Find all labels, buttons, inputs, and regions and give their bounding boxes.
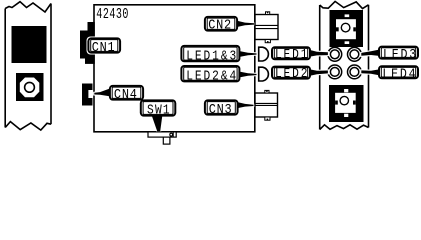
label CN3 [205,100,254,117]
left mounting bracket [5,2,51,130]
svg-text:LED4: LED4 [382,66,415,82]
label LED1 [272,47,328,62]
label LED1&3 [181,46,256,64]
switch SW1 (bottom edge of board) [148,132,176,144]
board outline 42430 [94,5,255,132]
right mounting bracket [320,1,369,129]
led LED1&3 (D-shape on board edge) [259,47,269,61]
LED holes (4 ring lights) on right bracket [328,47,361,78]
label CN2 [205,17,254,33]
connector opening (black) on left bracket [12,26,47,63]
svg-text:CN2: CN2 [208,17,231,33]
label LED4 [361,66,418,82]
connector CN4 (black, left edge of board) [82,84,93,106]
label CN1 [87,37,123,56]
label LED2 [272,66,328,81]
svg-text:42430: 42430 [96,5,128,23]
connector CN2 (right edge of board) [255,12,278,43]
connector CN1 (black, left edge of board) [80,22,95,64]
label SW1 [141,100,176,131]
svg-text:SW1: SW1 [147,101,170,118]
bottom connector cutout on right bracket [329,85,364,122]
top connector cutout on right bracket [330,10,364,47]
label CN4 [94,86,143,102]
svg-text:CN3: CN3 [209,101,232,117]
svg-text:CN4: CN4 [114,86,137,102]
svg-text:CN1: CN1 [92,39,115,55]
led LED2&4 (D-shape on board edge) [259,67,269,81]
coax connector on left bracket [16,73,44,101]
label LED2&4 [181,66,256,84]
label LED3 [361,46,418,62]
connector CN3 (right edge of board) [255,90,278,120]
